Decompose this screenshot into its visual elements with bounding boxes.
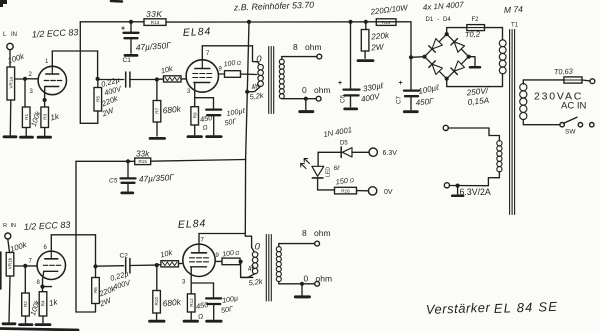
svg-text:33k: 33k xyxy=(136,150,150,159)
svg-text:Ω: Ω xyxy=(349,178,354,185)
svg-text:Ω: Ω xyxy=(235,250,240,257)
svg-text:EL84: EL84 xyxy=(183,26,212,39)
svg-text:VR1b: VR1b xyxy=(8,257,13,269)
svg-text:R9: R9 xyxy=(192,112,197,118)
svg-text:C5: C5 xyxy=(109,178,118,185)
svg-text:6.3V/2A: 6.3V/2A xyxy=(460,187,491,197)
svg-text:M 74: M 74 xyxy=(504,4,524,15)
svg-text:0: 0 xyxy=(302,85,307,95)
svg-text:R: R xyxy=(3,223,7,229)
svg-text:2W: 2W xyxy=(370,42,385,52)
svg-text:+: + xyxy=(399,80,403,87)
svg-text:ohm: ohm xyxy=(314,228,331,238)
svg-text:ohm: ohm xyxy=(305,42,322,52)
svg-text:0: 0 xyxy=(255,241,261,252)
svg-text:R15: R15 xyxy=(138,159,147,164)
svg-text:C1: C1 xyxy=(123,57,132,64)
svg-text:8: 8 xyxy=(302,228,307,238)
svg-text:EL84: EL84 xyxy=(178,218,207,231)
svg-text:R12: R12 xyxy=(189,298,194,307)
svg-text:ohm: ohm xyxy=(316,274,333,284)
svg-text:R2: R2 xyxy=(23,301,28,307)
svg-text:+: + xyxy=(121,26,125,33)
svg-text:R14: R14 xyxy=(382,20,391,25)
svg-text:R16: R16 xyxy=(341,188,350,193)
svg-text:ohm: ohm xyxy=(314,85,331,95)
svg-text:Verstärker: Verstärker xyxy=(426,300,491,317)
svg-text:C2: C2 xyxy=(120,253,129,260)
svg-text:T0,2: T0,2 xyxy=(465,29,482,39)
svg-text:D4: D4 xyxy=(443,17,451,23)
svg-text:-: - xyxy=(437,17,439,23)
svg-text:IN: IN xyxy=(11,32,17,38)
svg-text:0: 0 xyxy=(256,54,262,65)
svg-text:R1: R1 xyxy=(24,113,29,119)
svg-text:0V: 0V xyxy=(384,189,393,196)
svg-text:Ω: Ω xyxy=(236,60,241,67)
svg-text:SW: SW xyxy=(565,129,576,136)
svg-text:T0,63: T0,63 xyxy=(554,66,574,76)
svg-text:R13: R13 xyxy=(151,20,160,25)
svg-text:C7: C7 xyxy=(396,95,403,104)
svg-text:450Γ: 450Γ xyxy=(415,97,434,108)
svg-text:D5: D5 xyxy=(340,141,348,147)
svg-text:680k: 680k xyxy=(162,297,182,309)
svg-text:T1: T1 xyxy=(511,23,519,29)
svg-text:LED: LED xyxy=(326,167,332,177)
svg-text:AC IN: AC IN xyxy=(561,101,586,112)
svg-text:VR1a: VR1a xyxy=(8,77,13,89)
svg-text:8: 8 xyxy=(293,42,298,52)
svg-text:6ℓ: 6ℓ xyxy=(334,165,341,172)
svg-text:0: 0 xyxy=(304,274,309,284)
svg-text:R7: R7 xyxy=(155,107,160,113)
svg-text:680k: 680k xyxy=(162,104,182,116)
svg-text:D1: D1 xyxy=(426,17,434,23)
svg-text:220k: 220k xyxy=(370,31,390,42)
svg-text:EL 84 SE: EL 84 SE xyxy=(494,299,559,316)
svg-text:R4: R4 xyxy=(41,300,46,306)
svg-text:IN: IN xyxy=(11,223,17,229)
svg-text:47µ/350Γ: 47µ/350Γ xyxy=(139,172,176,184)
svg-text:33K: 33K xyxy=(146,9,162,19)
svg-text:F2: F2 xyxy=(472,17,480,23)
svg-text:R3: R3 xyxy=(42,113,47,119)
svg-text:6.3V: 6.3V xyxy=(383,150,398,157)
svg-text:R10: R10 xyxy=(154,297,159,306)
svg-text:150: 150 xyxy=(335,176,349,187)
svg-text:C6: C6 xyxy=(340,94,347,103)
svg-text:+: + xyxy=(338,80,342,87)
